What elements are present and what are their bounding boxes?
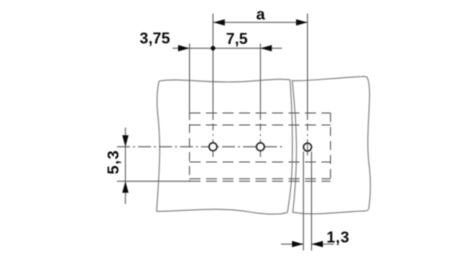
svg-text:1,3: 1,3	[327, 230, 350, 247]
dashed connector outline (hidden lines)	[190, 110, 331, 181]
arrow 1,3 left-pointing	[312, 241, 323, 247]
extension line left edge vertical	[189, 44, 191, 121]
svg-text:3,75: 3,75	[140, 31, 171, 48]
extension line hole2 vertical	[259, 44, 261, 121]
extension line hole1 vertical	[190, 14, 312, 251]
svg-text:7,5: 7,5	[226, 31, 248, 48]
dashed left edge	[189, 110, 191, 181]
svg-text:a: a	[256, 7, 265, 24]
hole 3 center tick	[307, 143, 309, 151]
hole 1	[209, 143, 217, 151]
tangent line hole3 left	[302, 152, 304, 251]
arrow 3,75 right-pointing	[178, 45, 189, 51]
dashed line fourth	[190, 178, 331, 180]
arrow 7,5 left-pointing	[260, 45, 271, 51]
plate right piece	[292, 76, 370, 214]
dimension 5,3 line	[124, 128, 126, 205]
dot junction 3,75 / 7,5	[211, 46, 216, 51]
center line horizontal through holes	[117, 146, 285, 148]
extension line bottom left (5,3)	[117, 180, 190, 182]
dashed line top	[190, 112, 331, 114]
dimension a line	[125, 22, 334, 244]
plate left piece (PCB with break)	[157, 76, 371, 214]
dashed line second	[190, 124, 331, 126]
extension line hole3 vertical	[307, 14, 309, 121]
arrow 5,3 down-pointing	[122, 135, 128, 146]
arrow a left	[213, 19, 224, 25]
dimension 7,5 line	[213, 47, 282, 49]
arrow 5,3 up-pointing	[122, 181, 128, 192]
dashed right edge	[330, 113, 332, 181]
arrow a right	[296, 19, 307, 25]
dimension 1,3 line left	[281, 243, 303, 245]
dashed line third	[190, 161, 331, 163]
dimension 3,75 line	[173, 47, 214, 49]
hole 2	[256, 143, 264, 151]
hole 3	[304, 143, 312, 151]
arrow 1,3 right-pointing	[292, 241, 303, 247]
tangent line hole3 right	[311, 152, 313, 251]
arrowheads	[122, 19, 323, 247]
dimension 1,3 line right	[312, 243, 335, 245]
dashed line bottom	[190, 180, 331, 182]
svg-text:5,3: 5,3	[106, 150, 123, 175]
